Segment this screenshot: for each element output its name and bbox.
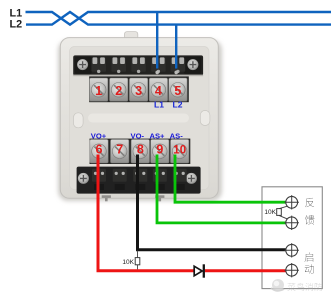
svg-text:8: 8: [137, 142, 144, 156]
svg-text:10K: 10K: [122, 259, 134, 266]
svg-text:9: 9: [156, 142, 163, 156]
svg-text:6: 6: [96, 142, 103, 156]
svg-text:L2: L2: [10, 19, 23, 31]
svg-text:3: 3: [135, 84, 142, 98]
svg-text:1: 1: [95, 84, 102, 98]
svg-text:2: 2: [115, 84, 122, 98]
svg-text:7: 7: [116, 142, 123, 156]
svg-text:L2: L2: [173, 100, 183, 110]
svg-text:4: 4: [155, 84, 162, 98]
svg-text:5: 5: [174, 84, 181, 98]
svg-text:10K: 10K: [264, 209, 276, 216]
svg-text:L1: L1: [154, 100, 164, 110]
